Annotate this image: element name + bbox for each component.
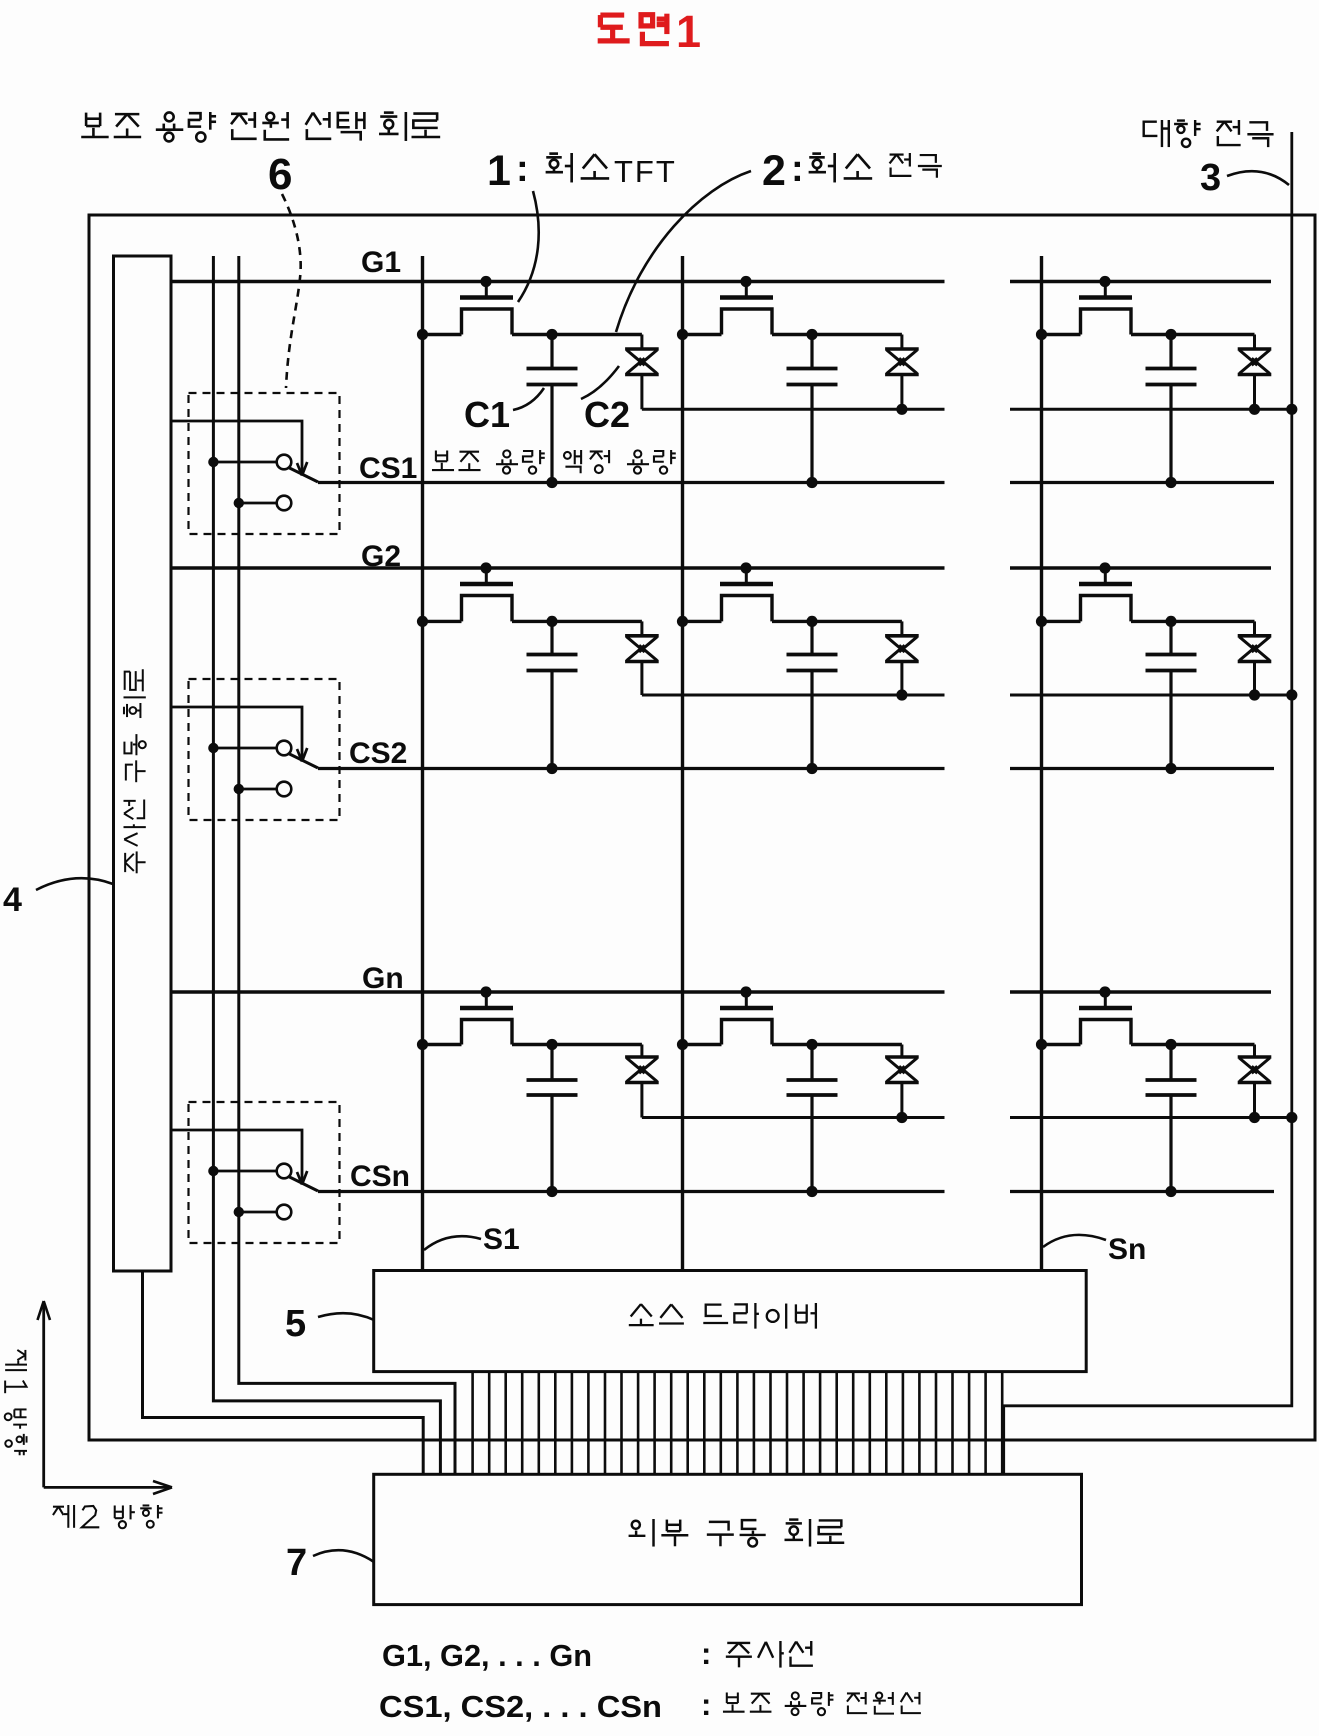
- svg-text:2: 2: [762, 147, 786, 195]
- storage capacitor C1 of pixel 3n: [1146, 1045, 1197, 1198]
- annotation: LC capacitance (액정 용량): [564, 450, 676, 474]
- switch throw contact a (selection circuit 1): [208, 455, 291, 470]
- gate line G2: [171, 566, 1271, 569]
- storage capacitor C1 of pixel 2n: [1146, 621, 1197, 774]
- leader line from C1 to storage capacitor: [513, 388, 544, 410]
- source line S1 (vertical): [421, 256, 424, 1271]
- gate line label G1: [361, 246, 401, 279]
- legend: CS1, CS2 ... CSn auxiliary capacitance power lines: [379, 1687, 921, 1724]
- title text 도면1 (Figure 1, red): [598, 6, 701, 57]
- svg-text:G2: G2: [361, 540, 401, 573]
- switch throw contact a (selection circuit 3): [208, 1164, 291, 1179]
- svg-text:CSn: CSn: [350, 1160, 410, 1193]
- leader line from 3 to counter electrode line: [1227, 171, 1289, 185]
- switch blade (selection circuit 1): [289, 468, 319, 483]
- pixel TFT Q32: [677, 986, 818, 1050]
- storage capacitor C1 of pixel 21: [527, 621, 578, 774]
- reference numeral 3: [1200, 157, 1221, 199]
- source line S2 (vertical): [681, 256, 684, 1271]
- second direction axis label (제2 방향): [53, 1505, 163, 1528]
- storage capacitor C1 of pixel 22: [787, 621, 838, 774]
- CS supply line B (vertical feed x=213.4): [213, 256, 440, 1474]
- storage capacitor line CS1: [318, 481, 1274, 484]
- svg-text:G1: G1: [361, 246, 401, 279]
- annotation: storage capacitance (보조 용량): [432, 450, 545, 474]
- svg-text:CS1, CS2, . . . CSn: CS1, CS2, . . . CSn: [379, 1689, 662, 1724]
- leader line from S1 line to label: [424, 1236, 481, 1250]
- leader line from Sn line to label: [1043, 1235, 1106, 1247]
- svg-text::: :: [701, 1636, 711, 1671]
- storage capacitor line label CS1: [359, 452, 417, 485]
- scan driver feed line to external circuit: [143, 1271, 424, 1474]
- counter electrode row bus (row 1): [642, 404, 1298, 415]
- leader line from 5 to source driver: [318, 1313, 374, 1320]
- counter electrode row bus (row 2): [642, 689, 1298, 700]
- switch throw contact b (selection circuit 3): [234, 1205, 292, 1220]
- pixel TFT Q21: [417, 562, 558, 627]
- leader line from label 1 to pixel TFT: [518, 191, 539, 302]
- storage capacitor C1 of pixel 31: [527, 1045, 578, 1198]
- legend: G1, G2 ... Gn scanning lines: [382, 1636, 813, 1673]
- storage capacitor C1 of pixel 11: [527, 335, 578, 489]
- bundle of connection lines from source driver to external drive circuit: [473, 1372, 1003, 1475]
- svg-text:6: 6: [268, 150, 292, 199]
- svg-text:5: 5: [285, 1303, 306, 1345]
- label S1: [483, 1223, 520, 1256]
- pixel TFT Q11: [417, 276, 558, 340]
- switch throw contact b (selection circuit 1): [234, 496, 292, 511]
- svg-text:Sn: Sn: [1108, 1233, 1146, 1266]
- svg-text:CS1: CS1: [359, 452, 417, 485]
- liquid crystal capacitor C2 of pixel 12: [812, 335, 919, 415]
- label Sn: [1108, 1233, 1146, 1266]
- liquid crystal capacitor C2 of pixel 2n: [1171, 621, 1271, 700]
- leader line from 7 to external drive circuit: [313, 1550, 374, 1562]
- CS selection circuit 2 (dashed box): [189, 679, 340, 820]
- switch throw contact a (selection circuit 2): [208, 741, 291, 756]
- liquid crystal capacitor C2 of pixel 1n: [1171, 335, 1271, 415]
- svg-text:G1, G2, . . . Gn: G1, G2, . . . Gn: [382, 1638, 592, 1673]
- outer panel border: [89, 215, 1315, 1440]
- source driver block (소스 드라이버): [374, 1271, 1086, 1372]
- reference numeral 4: [3, 881, 22, 919]
- svg-text:4: 4: [3, 881, 22, 919]
- external drive circuit block (외부 구동 회로): [374, 1474, 1082, 1604]
- svg-text:Gn: Gn: [362, 962, 404, 995]
- gate line label G2: [361, 540, 401, 573]
- storage capacitor line label CS2: [349, 737, 407, 770]
- liquid crystal capacitor C2 of pixel 11: [552, 335, 659, 410]
- pixel TFT Q31: [417, 986, 558, 1050]
- svg-text:S1: S1: [483, 1223, 520, 1256]
- svg-text:1: 1: [487, 147, 511, 195]
- svg-text:TFT: TFT: [614, 154, 677, 189]
- leader line from C2 to LC capacitor: [581, 366, 619, 399]
- leader line from 4 to scan driver block: [36, 878, 113, 890]
- gate line G1: [171, 280, 1271, 283]
- pixel TFT Q2n: [1036, 562, 1177, 627]
- dashed leader line from 6 to selection circuit box: [282, 194, 301, 388]
- first direction axis label (제1 방향): [5, 1350, 27, 1455]
- svg-text::: :: [516, 148, 529, 190]
- control feed line with arrow into selection circuit 3: [171, 1130, 307, 1185]
- liquid crystal capacitor C2 of pixel 22: [812, 621, 919, 700]
- control feed line with arrow into selection circuit 1: [171, 421, 307, 476]
- scan line driving circuit block (주사선 구동 회로): [114, 256, 172, 1271]
- reference numeral 7: [286, 1542, 307, 1584]
- liquid crystal capacitor C2 of pixel 3n: [1171, 1045, 1271, 1124]
- svg-text:C2: C2: [584, 394, 630, 435]
- storage capacitor line CSn: [318, 1190, 1274, 1193]
- leader line from label 2 to pixel electrode node: [616, 171, 751, 332]
- CS supply line A (vertical feed x=238.8): [239, 256, 455, 1474]
- label: 1 : pixel TFT (화소TFT): [487, 147, 677, 195]
- switch blade (selection circuit 2): [289, 754, 319, 769]
- svg-text:C1: C1: [464, 394, 510, 435]
- storage capacitor C1 of pixel 12: [787, 335, 838, 489]
- svg-text:CS2: CS2: [349, 737, 407, 770]
- label: 2 : pixel electrode (화소 전극): [762, 147, 942, 195]
- switch throw contact b (selection circuit 2): [234, 782, 292, 797]
- counter electrode line (net 3): [1004, 132, 1292, 1474]
- CS selection circuit 1 (dashed box): [189, 393, 340, 534]
- svg-text:3: 3: [1200, 157, 1221, 199]
- storage capacitor C1 of pixel 1n: [1146, 335, 1197, 489]
- pixel TFT Q12: [677, 276, 818, 340]
- source line Sn (vertical): [1040, 256, 1043, 1271]
- label C1: [464, 394, 510, 435]
- switch blade (selection circuit 3): [289, 1177, 319, 1192]
- label: auxiliary capacitance power selection circuit (보조 용량 전원 선택 회로): [81, 112, 440, 142]
- counter electrode row bus (row 3): [642, 1112, 1298, 1123]
- first direction axis arrow (vertical): [38, 1301, 51, 1487]
- label: counter electrode (대향 전극): [1144, 120, 1274, 147]
- second direction axis arrow (horizontal): [44, 1481, 172, 1494]
- control feed line with arrow into selection circuit 2: [171, 707, 307, 762]
- pixel TFT Q1n: [1036, 276, 1177, 340]
- storage capacitor line label CSn: [350, 1160, 410, 1193]
- reference numeral 6: [268, 150, 292, 199]
- gate line label Gn: [362, 962, 404, 995]
- storage capacitor line CS2: [318, 767, 1274, 770]
- liquid crystal capacitor C2 of pixel 31: [552, 1045, 659, 1118]
- pixel TFT Q22: [677, 562, 818, 627]
- svg-text:1: 1: [676, 6, 701, 57]
- svg-text::: :: [701, 1687, 711, 1722]
- storage capacitor C1 of pixel 32: [787, 1045, 838, 1198]
- svg-text::: :: [791, 148, 804, 190]
- pixel TFT Q3n: [1036, 986, 1177, 1050]
- CS selection circuit 3 (dashed box): [189, 1102, 340, 1243]
- gate line Gn: [171, 990, 1271, 993]
- liquid crystal capacitor C2 of pixel 21: [552, 621, 659, 695]
- svg-text:7: 7: [286, 1542, 307, 1584]
- reference numeral 5: [285, 1303, 306, 1345]
- label C2: [584, 394, 630, 435]
- liquid crystal capacitor C2 of pixel 32: [812, 1045, 919, 1124]
